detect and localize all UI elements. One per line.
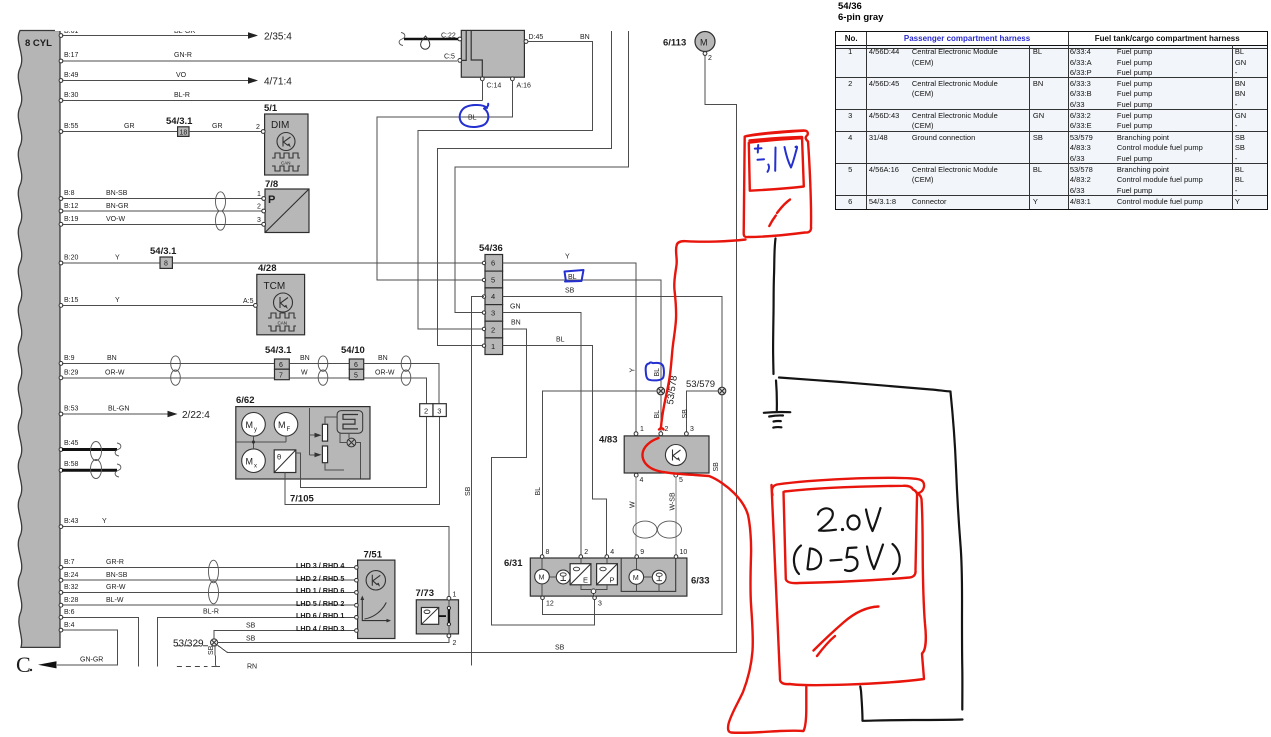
wire BN 54/10 to connector 3 bbox=[364, 363, 439, 403]
pin 2 of 5/1 bbox=[261, 130, 265, 134]
svg-text:LHD 2 / RHD 5: LHD 2 / RHD 5 bbox=[296, 574, 344, 583]
svg-text:3: 3 bbox=[437, 407, 441, 416]
svg-text:BL: BL bbox=[468, 115, 477, 122]
pin A:16 bbox=[511, 77, 515, 81]
CEM internal wire to C:5 bbox=[461, 30, 466, 60]
svg-text:Y: Y bbox=[630, 368, 637, 373]
twisted pair symbol W/W-SB bbox=[633, 521, 657, 538]
pin B:9 bbox=[59, 362, 63, 366]
svg-text:5: 5 bbox=[679, 477, 683, 484]
svg-text:5/1: 5/1 bbox=[264, 103, 278, 114]
wire from top to 54/36 pin 3 bbox=[455, 31, 629, 313]
red pen tick inside voltmeter 1 bbox=[769, 200, 790, 227]
row 5 bbox=[835, 165, 866, 175]
internal wires 6/31 bbox=[542, 558, 659, 596]
svg-text:DIM: DIM bbox=[271, 120, 289, 131]
svg-text:C: C bbox=[16, 652, 31, 677]
handwritten 2.0V bbox=[818, 508, 836, 530]
svg-text:OR-W: OR-W bbox=[375, 370, 395, 377]
pump right bbox=[652, 570, 666, 584]
svg-text:P: P bbox=[610, 576, 615, 585]
svg-text:B:32: B:32 bbox=[64, 584, 79, 591]
twisted pair symbol right bbox=[401, 356, 411, 371]
svg-text:BL: BL bbox=[535, 487, 542, 496]
svg-text:SB: SB bbox=[246, 623, 256, 630]
row 6 bbox=[835, 197, 866, 207]
svg-text:B:49: B:49 bbox=[64, 72, 79, 79]
wire OR-W 54/10 to connector 2 bbox=[364, 378, 427, 404]
pin B:28 bbox=[59, 603, 63, 607]
svg-text:B:19: B:19 bbox=[64, 216, 79, 223]
wire BL pin5 to node 53/578 bbox=[503, 280, 661, 387]
pin B:20 bbox=[59, 261, 63, 265]
svg-text:B:9: B:9 bbox=[64, 355, 75, 362]
connector table bbox=[835, 31, 1268, 210]
svg-text:7: 7 bbox=[279, 372, 283, 379]
svg-text:C:5: C:5 bbox=[444, 54, 455, 61]
svg-text:3: 3 bbox=[690, 426, 694, 433]
svg-text:BL-R: BL-R bbox=[203, 609, 219, 616]
graph axes icon bbox=[362, 599, 388, 621]
motor MF bbox=[274, 413, 298, 437]
wire Y to 54/36 pin 6 bbox=[172, 262, 484, 264]
svg-text:3: 3 bbox=[257, 217, 261, 224]
svg-text:8: 8 bbox=[164, 261, 168, 268]
svg-text:B:53: B:53 bbox=[64, 406, 79, 413]
svg-text:9: 9 bbox=[640, 549, 644, 556]
svg-text:W: W bbox=[301, 370, 308, 377]
pins 1,2 of 7/73 bbox=[447, 596, 451, 600]
pin B:55 bbox=[59, 130, 63, 134]
module CEM (top box) bbox=[461, 30, 524, 77]
svg-text:Y: Y bbox=[115, 255, 120, 262]
svg-text:BL: BL bbox=[556, 337, 565, 344]
svg-text:6: 6 bbox=[491, 259, 495, 268]
pin B:30 bbox=[59, 99, 63, 103]
blue pen box around BL at 54/36 pin 5 bbox=[565, 270, 584, 282]
red pen test lead from voltmeter 1 bbox=[661, 240, 746, 428]
wire B:24 BN-SB to 7/51 LHD2/RHD5 bbox=[62, 579, 356, 581]
svg-text:53/579: 53/579 bbox=[686, 379, 715, 390]
svg-text:BN: BN bbox=[511, 320, 521, 327]
svg-text:M: M bbox=[246, 457, 254, 467]
svg-text:P: P bbox=[268, 194, 275, 206]
svg-text:VO-W: VO-W bbox=[106, 216, 125, 223]
wire GR to DIM pin 2 bbox=[189, 131, 262, 133]
svg-text:4: 4 bbox=[610, 549, 614, 556]
wire B:29 OR-W to 54/3.1 pin 7 bbox=[62, 377, 275, 379]
svg-text:4/83: 4/83 bbox=[599, 435, 618, 446]
pins of 54/36 (left side) bbox=[482, 261, 485, 264]
svg-text:BN-GR: BN-GR bbox=[106, 203, 129, 210]
svg-text:6/33: 6/33 bbox=[691, 576, 710, 587]
wire SB 53/329 to 7/73 pin 2 bbox=[218, 638, 449, 643]
pin B:32 bbox=[59, 591, 63, 595]
wire BN pin2 detour to 6/31 pin 3 bbox=[492, 329, 595, 625]
svg-text:BN: BN bbox=[107, 355, 117, 362]
svg-text:B:12: B:12 bbox=[64, 203, 79, 210]
svg-text:SB: SB bbox=[208, 645, 215, 655]
svg-text:54/3.1: 54/3.1 bbox=[265, 345, 292, 356]
svg-text:x: x bbox=[254, 464, 257, 470]
svg-text:SB: SB bbox=[565, 288, 575, 295]
svg-text:E: E bbox=[583, 576, 588, 585]
wire W 4/83 pin4 to 6/31 pin 9 bbox=[635, 477, 637, 556]
svg-text:2: 2 bbox=[584, 549, 588, 556]
wire B:4 loop to GN-GR arrow bbox=[57, 630, 117, 665]
svg-text:B:55: B:55 bbox=[64, 123, 79, 130]
motor M right bbox=[629, 570, 644, 585]
svg-text:A:16: A:16 bbox=[517, 83, 532, 90]
svg-text:7/51: 7/51 bbox=[364, 550, 383, 561]
wire BN from D:45 to 54/36 pin 2 bbox=[418, 42, 593, 330]
svg-text:SB: SB bbox=[682, 409, 689, 419]
wire SB pin4 left long run down bbox=[472, 297, 484, 666]
svg-text:M: M bbox=[700, 38, 708, 48]
svg-text:M: M bbox=[246, 420, 254, 430]
pin B:61 (top, cut off) bbox=[59, 34, 63, 38]
svg-text:LHD 6 / RHD 1: LHD 6 / RHD 1 bbox=[296, 611, 344, 620]
svg-text:B:8: B:8 bbox=[64, 190, 75, 197]
svg-text:BL: BL bbox=[568, 274, 577, 281]
resistor feed lines with arrows bbox=[310, 408, 315, 455]
svg-text:6/113: 6/113 bbox=[663, 38, 686, 49]
svg-text:B:30: B:30 bbox=[64, 92, 79, 99]
red pen scribble in voltmeter 2 bbox=[814, 607, 879, 657]
red pen voltmeter 2 body bbox=[772, 478, 926, 685]
resistor R1 bbox=[322, 424, 327, 441]
svg-text:VO: VO bbox=[176, 72, 187, 79]
svg-text:BN: BN bbox=[580, 34, 590, 41]
svg-text:6/62: 6/62 bbox=[236, 395, 255, 406]
svg-text:B:20: B:20 bbox=[64, 255, 79, 262]
svg-text:M: M bbox=[539, 575, 545, 582]
wire B:53 BL-GN to 2/22:4 bbox=[62, 413, 170, 415]
svg-text:7/73: 7/73 bbox=[416, 588, 435, 599]
heater element bbox=[337, 411, 363, 434]
lamp bbox=[347, 438, 356, 447]
svg-text:B:58: B:58 bbox=[64, 461, 79, 468]
svg-text:A:5: A:5 bbox=[243, 298, 254, 305]
wire B:43 Y to 7/73 pin 1 bbox=[62, 527, 449, 597]
pin B:4 bbox=[59, 628, 63, 632]
blue pen box around BL at 53/578 bbox=[646, 362, 664, 380]
red pen voltmeter 2 display bbox=[784, 486, 918, 583]
pin C:22 bbox=[458, 37, 462, 41]
wire B:12 BN-GR to 7/8 pin 2 bbox=[62, 210, 263, 212]
svg-text:8: 8 bbox=[546, 549, 550, 556]
svg-text:BN-SB: BN-SB bbox=[106, 190, 128, 197]
svg-text:2: 2 bbox=[708, 55, 712, 62]
svg-text:5: 5 bbox=[491, 275, 495, 284]
internal bus wires bbox=[236, 436, 286, 449]
svg-text:7/105: 7/105 bbox=[290, 494, 314, 505]
svg-text:B:43: B:43 bbox=[64, 518, 79, 525]
handwritten (0-5V) bbox=[794, 546, 801, 575]
row 2 bbox=[835, 79, 866, 89]
pins 1,2,3 of 7/8 bbox=[262, 197, 266, 201]
wire BL node 53/578 branch to 6/31 pin 8 bbox=[543, 391, 658, 556]
pin B:24 bbox=[59, 578, 63, 582]
wire BL pin1 to 6/31 pin 4 bbox=[503, 346, 607, 556]
svg-text:1: 1 bbox=[453, 592, 457, 599]
wire B:9 BN to 54/3.1 pin 6 bbox=[62, 362, 275, 364]
svg-text:D:45: D:45 bbox=[529, 34, 544, 41]
pin B:6 bbox=[59, 615, 63, 619]
connector 2|3 bbox=[420, 404, 433, 417]
wire B:15 Y to TCM A:5 bbox=[62, 304, 255, 306]
wire BL from A:16 to 54/36 pin 5 bbox=[377, 81, 512, 281]
svg-text:4/28: 4/28 bbox=[258, 263, 277, 274]
svg-text:1: 1 bbox=[640, 426, 644, 433]
table title 54/36 bbox=[838, 1, 883, 23]
wire B:8 BN-SB to 7/8 pin 1 bbox=[62, 198, 263, 200]
pins 1,2,3 of 4/83 bbox=[634, 432, 638, 436]
wire SB 53/329 down to dashed continuation bbox=[215, 646, 216, 667]
svg-text:GR-R: GR-R bbox=[106, 559, 124, 566]
row 1 bbox=[835, 47, 866, 57]
svg-text:5: 5 bbox=[354, 372, 358, 379]
shielded wire B:45 bbox=[62, 448, 117, 451]
svg-text:BL: BL bbox=[654, 368, 661, 377]
wire theta to connector 2 bbox=[296, 417, 427, 488]
pin B:7 bbox=[59, 566, 63, 570]
svg-text:F: F bbox=[287, 427, 291, 433]
svg-text:2: 2 bbox=[665, 426, 669, 433]
pins of 7/51 bbox=[355, 566, 359, 570]
svg-text:Y: Y bbox=[565, 254, 570, 261]
svg-text:C:14: C:14 bbox=[487, 83, 502, 90]
connector bar 8 CYL bbox=[18, 31, 60, 648]
svg-text:W-SB: W-SB bbox=[670, 492, 677, 510]
black pen ground symbol bbox=[764, 411, 791, 414]
pins bottom of 6/31 bbox=[541, 596, 545, 600]
svg-text:BN-SB: BN-SB bbox=[106, 572, 128, 579]
svg-text:SB: SB bbox=[246, 636, 256, 643]
svg-text:B:24: B:24 bbox=[64, 572, 79, 579]
wire Y pin6 to 4/83 pin 1 bbox=[503, 263, 636, 432]
svg-text:RN: RN bbox=[247, 664, 257, 671]
wire B:7 GR-R to 7/51 LHD3/RHD4 bbox=[62, 566, 356, 568]
svg-text:B:17: B:17 bbox=[64, 52, 79, 59]
svg-text:B:15: B:15 bbox=[64, 297, 79, 304]
dashed continuation box bbox=[176, 645, 217, 647]
pin B:58 bbox=[59, 468, 63, 472]
svg-text:2: 2 bbox=[491, 325, 495, 334]
svg-text:2: 2 bbox=[453, 640, 457, 647]
row 4 bbox=[835, 133, 866, 143]
svg-text:3: 3 bbox=[491, 309, 495, 318]
wire B:17 GN-R to C:5 bbox=[62, 60, 457, 62]
wire SB ground bus bottom bbox=[217, 55, 737, 652]
wire SB pin4 to node 53/579 bbox=[503, 297, 722, 387]
svg-text:BL: BL bbox=[654, 410, 661, 419]
svg-text:SB: SB bbox=[555, 645, 565, 652]
pin B:19 bbox=[59, 222, 63, 226]
svg-text:CAN: CAN bbox=[281, 161, 291, 166]
svg-text:54/3.1: 54/3.1 bbox=[166, 116, 193, 127]
pin B:49 bbox=[59, 79, 63, 83]
svg-text:B:4: B:4 bbox=[64, 622, 75, 629]
wire B:55 GR to connector 54/3.1 pin 18 bbox=[62, 131, 178, 133]
pump left bbox=[556, 570, 570, 584]
svg-text:LHD 1 / RHD 6: LHD 1 / RHD 6 bbox=[296, 586, 344, 595]
svg-text:1: 1 bbox=[257, 191, 261, 198]
row 3 bbox=[835, 111, 866, 121]
pin B:45 bbox=[59, 448, 63, 452]
svg-text:OR-W: OR-W bbox=[105, 370, 125, 377]
wire B:19 VO-W to 7/8 pin 3 bbox=[62, 223, 263, 225]
pins 4,5 of 4/83 bbox=[634, 473, 638, 477]
svg-text:4: 4 bbox=[640, 477, 644, 484]
heater/lamp wiring bbox=[325, 417, 361, 479]
svg-text:LHD 5 / RHD 2: LHD 5 / RHD 2 bbox=[296, 599, 344, 608]
pins top of 6/31 bbox=[540, 555, 544, 559]
black pen lead to voltmeter 2 bbox=[779, 378, 951, 392]
wire SB 53/329 to LHD4/RHD3 bbox=[214, 631, 356, 641]
svg-text:B:28: B:28 bbox=[64, 597, 79, 604]
svg-text:BL-GN: BL-GN bbox=[108, 406, 129, 413]
pin B:29 bbox=[59, 376, 63, 380]
svg-text:M: M bbox=[633, 575, 639, 582]
wire GN pin3 to 6/31 pin 2 bbox=[503, 313, 581, 556]
svg-text:18: 18 bbox=[180, 129, 188, 136]
blue handwriting -0.1V bbox=[755, 145, 762, 153]
svg-text:B:7: B:7 bbox=[64, 559, 75, 566]
svg-text:B:6: B:6 bbox=[64, 609, 75, 616]
motor My bbox=[242, 413, 266, 437]
pin B:8 bbox=[59, 197, 63, 201]
svg-text:12: 12 bbox=[546, 601, 554, 608]
svg-text:SB: SB bbox=[465, 486, 472, 496]
wire C:14 down to B:30 row bbox=[481, 81, 483, 101]
arrow GN-GR continuation C bbox=[38, 661, 57, 668]
blue pen circle around BL label bbox=[460, 104, 489, 127]
svg-text:2: 2 bbox=[256, 124, 260, 131]
ejector P box bbox=[597, 564, 618, 585]
pin B:15 bbox=[59, 304, 63, 308]
pin B:17 bbox=[59, 59, 63, 63]
svg-text:2/35:4: 2/35:4 bbox=[264, 32, 292, 43]
black pen probe wire to ground bbox=[773, 239, 775, 375]
wire SB 53/579 down to 6/31 pin 12 bbox=[543, 395, 723, 614]
svg-text:BN: BN bbox=[300, 355, 310, 362]
svg-text:B:45: B:45 bbox=[64, 440, 79, 447]
svg-text:7/8: 7/8 bbox=[265, 179, 278, 190]
motor M left bbox=[535, 569, 550, 584]
svg-text:GN-R: GN-R bbox=[174, 52, 192, 59]
svg-text:Y: Y bbox=[115, 297, 120, 304]
node 53/578 bbox=[657, 387, 665, 395]
pin C:14 bbox=[480, 77, 484, 81]
wire B:32 GR-W to 7/51 LHD1/RHD6 bbox=[62, 591, 356, 593]
motor Mx bbox=[242, 449, 266, 473]
wire B:49 VO to 4/71:4 bbox=[62, 80, 250, 82]
drain teardrop symbol bbox=[421, 36, 430, 49]
red pen voltmeter 1 body bbox=[744, 131, 811, 238]
bold wire at C:22 with drain bbox=[404, 38, 458, 41]
wire SB 53/579 branch to 4/83 pin 3 bbox=[686, 391, 718, 432]
red pen voltmeter 1 display bbox=[749, 137, 804, 191]
wire BN 54/3.1 to 54/10 bbox=[289, 362, 349, 364]
wire 6/62 to connector 3 bbox=[285, 417, 439, 505]
svg-text:BL-W: BL-W bbox=[106, 597, 124, 604]
wire B:61 to 2/35:4 bbox=[62, 35, 250, 37]
svg-text:y: y bbox=[254, 427, 257, 433]
svg-text:BN: BN bbox=[378, 355, 388, 362]
svg-text:LHD 4 / RHD 3: LHD 4 / RHD 3 bbox=[296, 624, 344, 633]
ejector E box bbox=[570, 564, 591, 585]
twisted pair symbol mid bbox=[318, 356, 328, 371]
wire B:28 BL-W to 7/51 LHD5/RHD2 bbox=[62, 604, 356, 606]
CEM internal wire to C:14 bbox=[471, 30, 482, 77]
twisted pair symbol B:9/B:29 left bbox=[171, 356, 181, 371]
svg-text:54/36: 54/36 bbox=[479, 243, 503, 254]
wire BL-R to 7/51 LHD6/RHD1 bbox=[158, 617, 356, 666]
svg-text:4: 4 bbox=[491, 292, 495, 301]
svg-text:4/71:4: 4/71:4 bbox=[264, 77, 292, 88]
twisted pair symbol B:45/B:58 bbox=[91, 442, 102, 461]
svg-text:54/3.1: 54/3.1 bbox=[150, 246, 177, 257]
wire W-SB 4/83 pin5 to 6/31 pin 10 bbox=[675, 477, 677, 556]
svg-text:8 CYL: 8 CYL bbox=[25, 38, 52, 49]
svg-text:CAN: CAN bbox=[278, 321, 288, 326]
svg-text:53/329: 53/329 bbox=[173, 639, 204, 650]
wire BL node 53/578 to 4/83 pin 2 bbox=[660, 395, 662, 432]
twisted pair symbol B:8/B:12/B:19 bbox=[216, 192, 226, 211]
svg-text:SB: SB bbox=[713, 462, 720, 472]
svg-text:GR-W: GR-W bbox=[106, 584, 126, 591]
svg-text:6: 6 bbox=[279, 362, 283, 369]
svg-text:54/10: 54/10 bbox=[341, 345, 365, 356]
red pen stroke through 4/83 and down to voltmeter 2 bbox=[642, 428, 806, 733]
sensor theta box bbox=[274, 450, 296, 473]
shielded wire B:58 bbox=[62, 469, 117, 472]
svg-text:10: 10 bbox=[680, 549, 688, 556]
pin C:5 bbox=[458, 59, 462, 63]
pin A:5 of 4/28 bbox=[254, 304, 258, 308]
fuel pump unit 6/33 outline bbox=[621, 558, 676, 591]
svg-text:6: 6 bbox=[354, 362, 358, 369]
svg-text:θ: θ bbox=[277, 453, 281, 462]
pin D:45 bbox=[524, 40, 528, 44]
wire B:20 Y to connector 54/3.1 pin 8 bbox=[62, 262, 160, 264]
pin B:12 bbox=[59, 209, 63, 213]
svg-text:TCM: TCM bbox=[264, 281, 286, 292]
svg-text:6/31: 6/31 bbox=[504, 558, 523, 569]
relay contact bbox=[439, 615, 446, 617]
wire B:6 down to cut edge bbox=[62, 617, 139, 666]
svg-text:M: M bbox=[278, 420, 286, 430]
svg-text:GN: GN bbox=[510, 304, 521, 311]
svg-text:1: 1 bbox=[491, 342, 495, 351]
svg-text:Y: Y bbox=[102, 518, 107, 525]
svg-text:GR: GR bbox=[212, 123, 223, 130]
wire B:30 BL-R to C:14 bbox=[62, 100, 482, 102]
svg-text:B:29: B:29 bbox=[64, 370, 79, 377]
svg-text:2: 2 bbox=[424, 407, 428, 416]
wire from top to 54/36 pin 1 bbox=[437, 31, 611, 346]
twisted pair symbol B:7..B:28 bbox=[209, 560, 219, 583]
wire W 54/3.1 to 54/10 bbox=[289, 377, 349, 379]
resistor R2 bbox=[322, 446, 327, 463]
svg-text:GR: GR bbox=[124, 123, 135, 130]
pin B:43 bbox=[59, 525, 63, 529]
svg-text:LHD 3 / RHD 4: LHD 3 / RHD 4 bbox=[296, 561, 344, 570]
svg-text:W: W bbox=[630, 501, 637, 508]
svg-text:3: 3 bbox=[598, 601, 602, 608]
svg-text:GN-GR: GN-GR bbox=[80, 657, 103, 664]
